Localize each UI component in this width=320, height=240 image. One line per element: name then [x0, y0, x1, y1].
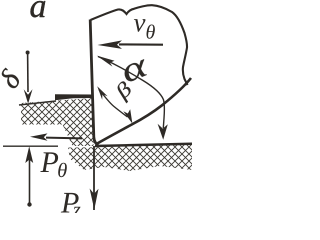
dimension lower dot	[27, 202, 31, 206]
soil clod outline	[91, 5, 188, 85]
beta arc upper arrowhead	[97, 86, 107, 100]
dimension lower arrow	[29, 153, 31, 205]
force label P theta	[40, 152, 58, 172]
dimension upper dot	[26, 51, 30, 55]
dimension upper arrow line	[27, 52, 29, 92]
subscript theta of P-theta	[58, 163, 67, 178]
share blade slanted	[96, 78, 191, 144]
alpha angle arc	[98, 57, 164, 129]
alpha label	[125, 59, 147, 81]
beta label	[118, 81, 131, 103]
P-z arrowhead	[90, 189, 99, 210]
soil surface line left	[19, 101, 56, 105]
beta arc lower arrowhead	[123, 109, 132, 123]
velocity label v theta	[134, 19, 146, 32]
bottom soil hatch band	[68, 145, 192, 171]
P-theta arrowhead	[30, 133, 48, 140]
subscript z of P-z	[73, 207, 81, 216]
dimension lower arrowhead	[25, 146, 33, 163]
force label P z	[61, 193, 79, 213]
alpha arc upper arrowhead	[97, 56, 115, 67]
figure label a	[31, 1, 46, 17]
P-theta arrow	[46, 137, 82, 140]
vertical blade shank	[90, 20, 98, 145]
dimension upper arrowhead	[24, 89, 33, 104]
left soil hatch block	[21, 98, 94, 146]
velocity arrow	[119, 43, 163, 45]
soil surface black band	[55, 94, 92, 100]
P-z arrow	[93, 146, 95, 210]
dimension label delta	[2, 68, 19, 88]
velocity arrowhead	[98, 40, 123, 49]
subscript theta of v-theta	[147, 25, 155, 39]
dimension extension line bottom	[3, 145, 58, 147]
right ground line	[95, 144, 192, 146]
alpha arc lower arrowhead	[158, 124, 168, 140]
beta angle arc	[99, 90, 128, 118]
